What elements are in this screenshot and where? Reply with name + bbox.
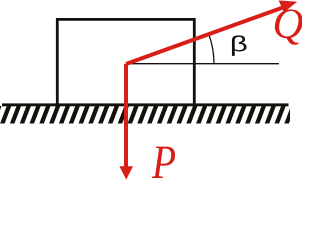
force P vector (124, 64, 128, 168)
ground line (2, 103, 289, 106)
label Q (275, 9, 303, 44)
angle arc (209, 34, 214, 64)
block (body on ground) (57, 19, 194, 105)
arrowhead Q (279, 0, 298, 12)
label beta (232, 35, 247, 56)
horizontal reference line (126, 63, 279, 65)
arrowhead P (119, 166, 133, 179)
ground hatching (0, 104, 294, 125)
label P (152, 147, 175, 178)
force Q vector (126, 8, 283, 64)
